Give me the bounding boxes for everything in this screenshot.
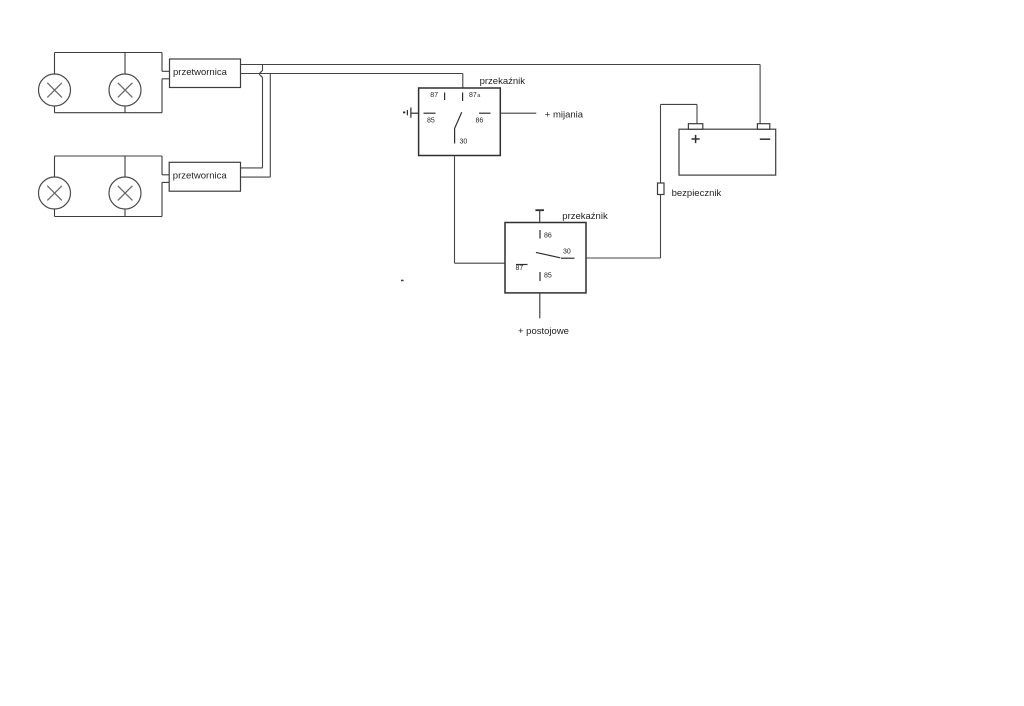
svg-text:86: 86 bbox=[544, 233, 552, 240]
svg-text:87: 87 bbox=[430, 92, 438, 99]
svg-text:bezpiecznik: bezpiecznik bbox=[672, 188, 722, 199]
svg-text:przekaźnik: przekaźnik bbox=[562, 211, 608, 222]
svg-text:30: 30 bbox=[563, 249, 571, 256]
svg-text:przetwornica: przetwornica bbox=[173, 171, 228, 182]
svg-text:87: 87 bbox=[469, 92, 477, 99]
svg-text:+ postojowe: + postojowe bbox=[518, 326, 569, 337]
svg-text:przetwornica: przetwornica bbox=[173, 67, 228, 78]
svg-text:30: 30 bbox=[460, 139, 468, 146]
svg-text:87: 87 bbox=[516, 265, 524, 272]
svg-text:86: 86 bbox=[476, 118, 484, 125]
svg-text:przekaźnik: przekaźnik bbox=[480, 76, 526, 87]
svg-text:85: 85 bbox=[544, 273, 552, 280]
svg-text:+ mijania: + mijania bbox=[545, 109, 584, 120]
svg-text:85: 85 bbox=[427, 118, 435, 125]
